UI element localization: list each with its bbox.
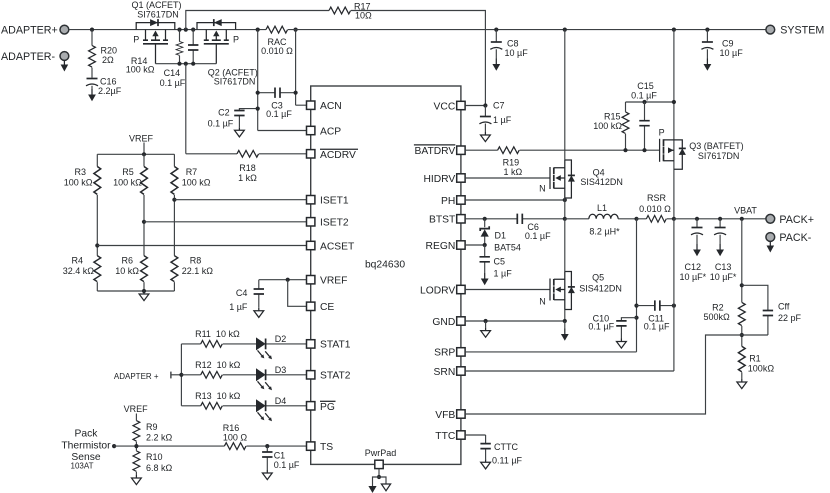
ground below C16 [88,89,96,101]
svg-text:ISET2: ISET2 [320,218,349,229]
svg-text:0.1 µF: 0.1 µF [266,109,292,119]
pin ACP [307,126,342,137]
svg-text:R3: R3 [74,167,86,177]
ground below C9 [704,59,712,71]
pin TTC [435,431,465,442]
wire ISET2 [144,221,307,223]
transistor Q1 (ACFET) [131,0,181,64]
node SRP C11 left [634,304,638,308]
resistor R11 [195,329,240,347]
pin STAT1 [307,340,351,351]
wire STAT1 row [181,343,306,345]
wire VCC pin [465,105,485,107]
svg-text:R5: R5 [122,167,134,177]
svg-text:VCC: VCC [434,101,456,112]
pin VREF [307,276,348,287]
wire PH [465,199,565,201]
svg-text:100 Ω: 100 Ω [223,433,248,443]
terminal SYSTEM [766,25,824,37]
svg-text:0.11 µF: 0.11 µF [492,455,523,465]
svg-text:10Ω: 10Ω [355,11,372,21]
svg-text:TTC: TTC [435,431,456,442]
svg-text:R18: R18 [239,163,256,173]
svg-text:C5: C5 [494,257,506,267]
svg-text:R2: R2 [712,302,724,312]
node C15 bottom [642,148,646,152]
svg-text:N: N [539,296,546,306]
svg-text:SI7617DN: SI7617DN [214,76,256,86]
node D1 cathode [483,217,487,221]
svg-text:2.2µF: 2.2µF [98,86,122,96]
node L1 right [634,217,638,221]
node divider ground [142,289,146,293]
svg-text:BTST: BTST [429,215,456,226]
svg-text:ADAPTER +: ADAPTER + [114,372,159,381]
svg-text:LODRV: LODRV [420,285,455,296]
node ISET2 tap [142,220,146,224]
svg-text:R8: R8 [190,256,202,266]
node VREF label thermistor [124,404,149,421]
capacitor C15 [631,81,657,150]
capacitor C6 [517,214,551,242]
ground below C2 [235,127,245,137]
resistor R8 [171,256,213,282]
node VBAT R2 [740,217,744,221]
node VFB junction [740,333,744,337]
ground below C7 [481,132,491,142]
svg-text:C2: C2 [218,108,230,118]
ground Q5 source [561,321,569,341]
svg-text:VREF: VREF [320,276,347,287]
svg-text:STAT1: STAT1 [320,340,351,351]
wire Q3 source column [673,30,675,219]
pin PH [441,196,465,207]
resistor R13 [195,391,241,409]
wire divider column 1 [96,154,98,291]
svg-text:VREF: VREF [124,404,149,414]
terminal PACK+ [766,214,814,226]
svg-text:R11 10 kΩ: R11 10 kΩ [195,329,240,339]
svg-text:PwrPad: PwrPad [365,448,397,458]
pin TS [307,442,334,453]
node C11 right [672,304,676,308]
ground GND pin [481,321,491,337]
wire R2 top lead [741,219,743,303]
svg-text:1 µF: 1 µF [229,302,248,312]
resistor R18 [237,150,259,182]
resistor R5 [113,167,147,195]
svg-text:C13: C13 [715,262,732,272]
node GND left ground [484,319,488,323]
svg-text:R7: R7 [186,167,198,177]
svg-text:D2: D2 [275,334,287,344]
terminal ADAPTER+ [1,25,69,37]
svg-text:C7: C7 [493,100,505,110]
ground below C8 [492,59,500,71]
svg-text:PACK-: PACK- [779,232,811,244]
svg-text:N: N [539,183,546,193]
ground below C10 [617,339,627,349]
svg-text:0.1 µF: 0.1 µF [274,460,300,470]
svg-text:P: P [133,35,139,45]
resistor R20 [89,30,117,78]
svg-text:STAT2: STAT2 [320,371,351,382]
wire TTC [465,435,486,444]
wire SRN [465,219,674,371]
svg-text:C4: C4 [236,288,248,298]
node R15 bottom [623,148,627,152]
ground below R10 [132,475,142,485]
wire PwrPad ground split [373,469,387,486]
ground PwrPad open [381,484,390,491]
node Q3 gate pullup [672,100,676,104]
pin ACN [307,101,342,112]
svg-text:2.2 kΩ: 2.2 kΩ [146,432,173,442]
LED D2 [256,334,286,359]
svg-text:100 kΩ: 100 kΩ [182,177,211,187]
ground PwrPad solid [368,486,376,493]
wire R15 C15 top [626,101,674,103]
capacitor C12 [679,219,706,282]
node Q5 source ground [563,319,567,323]
wire REGN [465,244,485,246]
svg-text:ADAPTER-: ADAPTER- [1,51,55,63]
svg-text:ACDRV: ACDRV [320,150,356,161]
inductor L1 [565,203,637,237]
capacitor C8 [490,30,528,59]
svg-text:Thermistor: Thermistor [61,440,111,451]
wire BTST [465,218,565,220]
resistor R1 [738,346,774,379]
capacitor C2 [208,108,258,129]
node C8 tap [494,28,498,32]
svg-text:PH: PH [441,196,455,207]
resistor R10 [133,446,173,475]
svg-text:100kΩ: 100kΩ [748,363,775,373]
capacitor C1 [262,446,300,470]
svg-text:R10: R10 [146,452,163,462]
svg-text:ISET1: ISET1 [320,196,349,207]
wire system rail [288,29,766,31]
svg-text:R1: R1 [749,353,761,363]
svg-text:C12: C12 [685,262,702,272]
wire SRP [465,219,636,352]
resistor R19 [498,147,523,177]
svg-text:10 kΩ: 10 kΩ [115,266,139,276]
wire STAT2 row [181,374,306,376]
resistor R7 [171,167,211,195]
svg-text:HIDRV: HIDRV [423,174,455,185]
svg-text:ACN: ACN [320,101,342,112]
wire Q5 source [564,310,566,322]
svg-text:0.1 µF: 0.1 µF [588,322,614,332]
wire PG row [181,405,306,407]
wire divider bottom rail [97,290,174,292]
resistor R9 [133,421,173,447]
svg-text:R9: R9 [146,422,158,432]
svg-text:10 µF*: 10 µF* [679,272,706,282]
svg-text:0.010 Ω: 0.010 Ω [639,204,671,214]
svg-text:VFB: VFB [435,410,455,421]
svg-text:P: P [659,128,665,138]
svg-text:SYSTEM: SYSTEM [780,25,824,37]
svg-text:D4: D4 [275,396,287,406]
node ACDRV gate tap [184,62,188,66]
node ISET1 tap [172,198,176,202]
pin SRN [434,367,466,378]
resistor R12 [195,360,241,378]
capacitor C5 [480,245,513,278]
svg-text:VBAT: VBAT [734,206,757,216]
svg-text:100 kΩ: 100 kΩ [64,177,93,187]
svg-text:ACP: ACP [320,126,341,137]
svg-text:ACSET: ACSET [320,241,355,252]
svg-text:BATDRV: BATDRV [414,146,455,157]
pin ISET1 [307,196,349,207]
svg-text:0.010 Ω: 0.010 Ω [261,46,293,56]
wire BATDRV [465,149,659,151]
capacitor Cff [742,285,802,335]
transistor Q4 [539,160,623,198]
svg-text:10 µF*: 10 µF* [710,272,737,282]
node C14 top [191,28,195,32]
svg-text:22 pF: 22 pF [778,313,802,323]
svg-text:BAT54: BAT54 [494,243,521,253]
node R9 R10 junction [134,444,138,448]
svg-text:PG: PG [320,402,335,413]
node LED bus mid [179,373,183,377]
svg-text:32.4 kΩ: 32.4 kΩ [63,266,95,276]
svg-text:103AT: 103AT [71,462,94,471]
svg-text:2Ω: 2Ω [102,55,114,65]
svg-text:D3: D3 [275,365,287,375]
capacitor C11 [637,300,674,331]
pin SRP [434,348,465,359]
ground below divider [139,291,149,301]
svg-text:0.1 µF: 0.1 µF [644,322,670,332]
svg-text:100 kΩ: 100 kΩ [126,65,155,75]
wire VFB [465,335,742,414]
svg-text:100 kΩ: 100 kΩ [113,177,142,187]
node phase junction [563,217,567,221]
pin GND [432,317,465,328]
label ADAPTER + LED feed [114,372,181,381]
wire R2 to R1 [741,326,743,346]
svg-text:6.8 kΩ: 6.8 kΩ [146,463,173,473]
capacitor C7 [479,100,511,132]
wire VREF pin [259,279,307,281]
ground below C1 [262,470,272,480]
capacitor C16 [86,76,122,95]
pin VFB [435,410,465,421]
ground below C13 [716,244,724,256]
svg-text:0.1 µF: 0.1 µF [631,91,657,101]
resistor R16 [223,423,248,450]
wire ACSET [97,245,306,247]
svg-text:0.1 µF: 0.1 µF [160,78,186,88]
node C7 tap [483,103,487,107]
node R20 top [90,28,94,32]
svg-text:1 µF: 1 µF [493,115,512,125]
capacitor C10 [588,313,636,338]
resistor RSR [637,193,674,222]
node C13 tap [718,217,722,221]
capacitor C3 [258,88,296,120]
transistor Q5 [539,272,622,310]
pin PwrPad [365,448,397,469]
svg-text:Q3 (BATFET): Q3 (BATFET) [689,141,743,151]
svg-text:10 µF: 10 µF [720,48,744,58]
pin LODRV [420,285,465,296]
transistor Q3 (BATFET) [659,128,744,170]
node thermistor sense stub [112,444,116,448]
wire divider column 2 [143,154,145,291]
node C10 tap [634,316,638,320]
ground below CTTC [481,459,491,469]
wire ACDRV to gates [186,64,307,154]
wire ACP branch [258,30,307,131]
svg-text:C14: C14 [164,68,181,78]
ground below R1 [737,379,747,389]
wire ACN branch [296,30,307,106]
svg-text:ADAPTER+: ADAPTER+ [1,25,58,37]
svg-text:R13 10 kΩ: R13 10 kΩ [195,391,241,401]
resistor R2 [703,302,745,325]
svg-text:C15: C15 [637,81,654,91]
svg-text:R4: R4 [71,256,83,266]
node VREF rail [142,152,146,156]
terminal PACK- [766,232,812,253]
node VREF-CE [286,278,290,282]
node REGN C5 [483,243,487,247]
resistor R14 [126,30,183,75]
svg-text:Q1 (ACFET): Q1 (ACFET) [131,0,181,10]
svg-text:R15: R15 [604,111,621,121]
node PH phase [563,198,567,202]
node C14 bottom [191,62,195,66]
wire Q5 drain [564,219,566,272]
op-amp U1 bq24630 IC body [311,86,461,464]
svg-text:1 µF: 1 µF [494,268,513,278]
wire GND [465,320,565,322]
ground below C5 [481,273,489,285]
resistor R15 [593,102,629,150]
node RAC left [256,28,260,32]
resistor R6 [115,256,147,282]
terminal ADAPTER- [1,51,69,72]
resistor RAC [261,26,293,56]
wire LED bus [180,344,182,406]
node C3 left [256,91,260,95]
pin STAT2 [307,371,351,382]
ground below C4 [254,308,264,318]
svg-text:SRN: SRN [434,367,456,378]
pin ISET2 [307,218,349,229]
diode D1 BAT54 [480,219,521,253]
node R14 top [177,28,181,32]
capacitor C14 [160,30,199,88]
wire battery line [674,218,766,220]
pin VCC [434,101,466,112]
svg-text:1 kΩ: 1 kΩ [504,167,523,177]
node C9 tap [705,28,709,32]
resistor R17 [186,1,486,105]
svg-text:1 kΩ: 1 kΩ [238,173,257,183]
wire TS line [114,445,306,447]
svg-text:GND: GND [432,317,455,328]
wire VREF top rail [97,153,174,155]
resistor R3 [64,167,101,195]
svg-text:R6: R6 [121,256,133,266]
svg-text:SIS412DN: SIS412DN [580,177,623,187]
wire HIDRV [465,177,550,179]
svg-text:TS: TS [320,442,333,453]
wire adapter input rail [69,29,266,31]
svg-text:R16: R16 [223,423,240,433]
svg-text:bq24630: bq24630 [365,260,405,271]
svg-text:P: P [233,35,239,45]
pin ACDRV [307,149,359,161]
svg-text:D1: D1 [495,230,507,240]
svg-text:PACK+: PACK+ [779,214,814,226]
transistor Q2 (ACFET) [197,19,258,86]
node C12 tap [695,217,699,221]
node Q4 drain rail [563,28,567,32]
svg-text:Q5: Q5 [592,273,604,283]
svg-text:SI7617DN: SI7617DN [137,10,179,20]
pin PG [307,401,336,413]
pin CE [307,302,335,313]
node C3 right [294,91,298,95]
pin BATDRV [414,145,465,157]
svg-text:Cff: Cff [778,302,790,312]
svg-text:R12 10 kΩ: R12 10 kΩ [195,360,241,370]
LED D4 [256,396,286,421]
svg-text:CTTC: CTTC [494,442,518,452]
pin ACSET [307,241,356,252]
svg-text:RSR: RSR [647,193,667,203]
pin BTST [429,215,465,226]
node RSR right [672,217,676,221]
node C1 tap [265,444,269,448]
resistor R4 [63,256,101,282]
node R17 tap [184,28,188,32]
svg-text:VREF: VREF [129,133,154,143]
wire CE loop [288,280,307,307]
svg-text:0.1 µF: 0.1 µF [525,231,551,241]
svg-text:10 µF: 10 µF [505,48,529,58]
svg-text:CE: CE [320,302,334,313]
svg-text:SI7617DN: SI7617DN [698,151,740,161]
svg-text:100 kΩ: 100 kΩ [593,121,622,131]
capacitor CTTC [480,442,522,466]
label Pack Thermistor Sense [61,429,111,471]
capacitor C9 [701,30,743,59]
svg-text:SRP: SRP [434,348,455,359]
pin REGN [426,241,466,252]
node R2 Cff top [740,283,744,287]
LED D3 [256,365,286,390]
svg-text:SIS412DN: SIS412DN [579,284,622,294]
svg-text:REGN: REGN [426,241,456,252]
node R14 bottom [177,62,181,66]
wire phase column [564,198,566,219]
node Q3 column rail [672,28,676,32]
wire ISET1 [174,199,306,201]
ground below C12 [693,244,701,256]
svg-text:8.2 µH*: 8.2 µH* [589,226,620,236]
capacitor C4 [229,280,264,312]
